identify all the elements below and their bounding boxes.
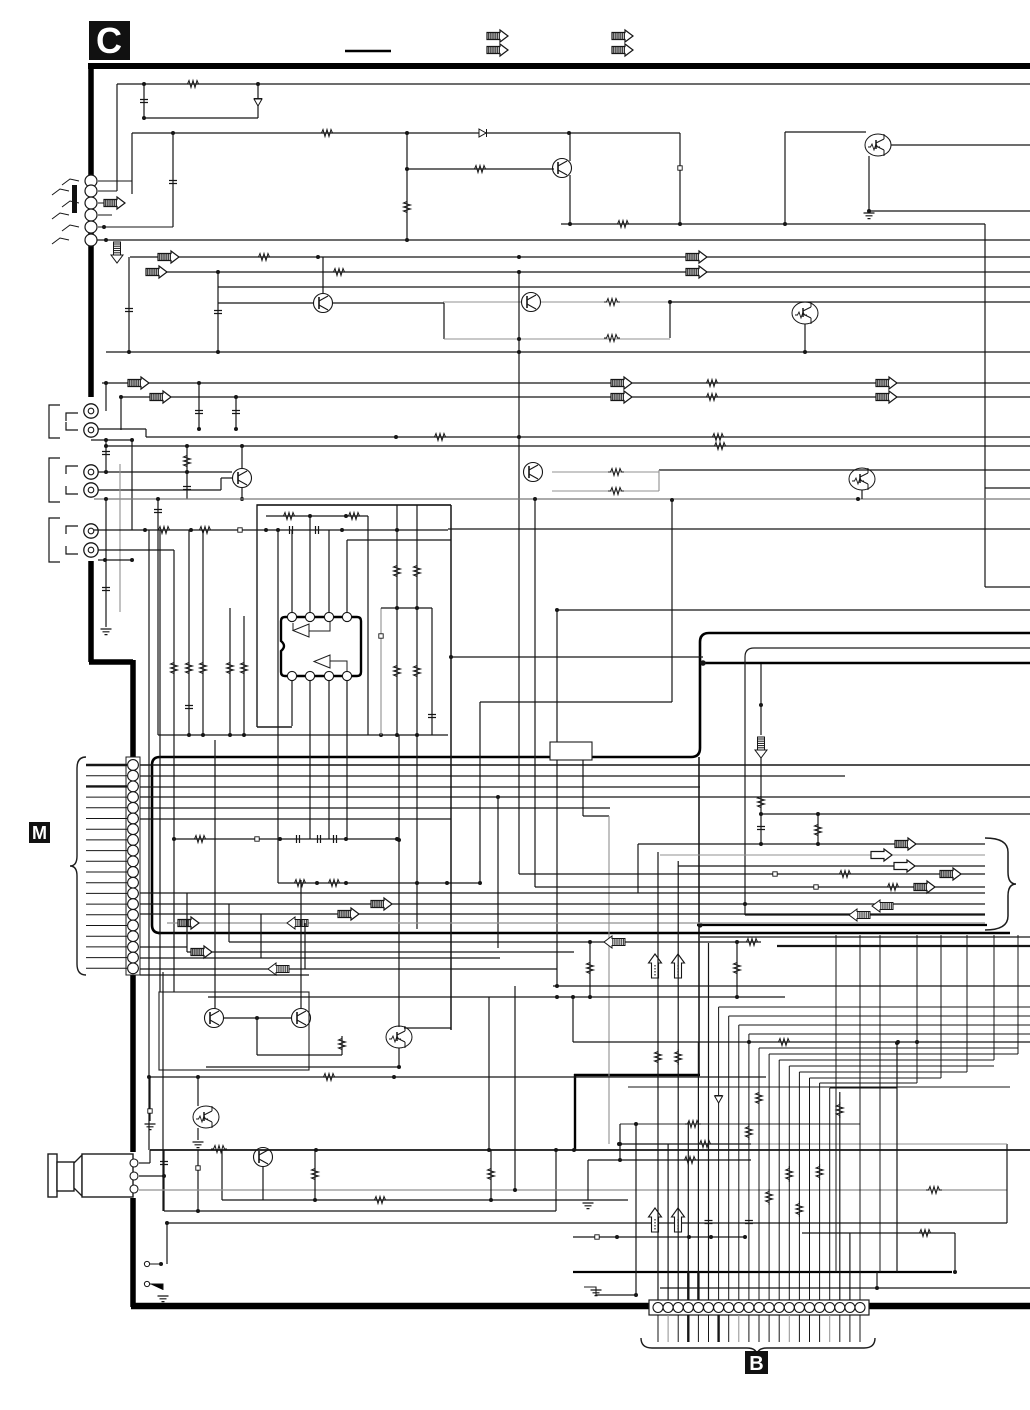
connector M pin 14 lead (86, 903, 127, 905)
wire (587, 1160, 589, 1200)
wire (98, 471, 232, 473)
connector B pin 17 stub (819, 1315, 821, 1342)
bus comb wire (859, 935, 861, 1300)
jack group bracket inner (66, 413, 78, 430)
wire (149, 1077, 151, 1121)
junction (104, 444, 108, 448)
resistor (710, 434, 726, 441)
junction (315, 881, 319, 885)
connector B pin 6 stub (708, 1315, 710, 1342)
junction (555, 995, 559, 999)
wire (208, 996, 785, 998)
junction (572, 1148, 576, 1152)
connector M pin 8 lead (86, 839, 127, 841)
wire (784, 132, 786, 224)
connector M pin 6 (128, 813, 139, 824)
junction (314, 1148, 318, 1152)
junction (449, 655, 453, 659)
wire (119, 464, 121, 612)
resistor (346, 513, 362, 520)
capacitor (140, 100, 148, 103)
wire (687, 1122, 689, 1272)
resistor (256, 254, 272, 261)
bus junction (697, 922, 702, 927)
pad (678, 166, 682, 170)
wire (167, 1222, 1007, 1224)
jack 1 wire (98, 180, 132, 182)
resistor (837, 871, 853, 878)
RCA jack 2 (84, 423, 98, 437)
resistor (655, 1049, 662, 1065)
connector B pin 5 stub (697, 1315, 699, 1342)
wire (985, 487, 1030, 489)
wire (954, 1233, 956, 1272)
capacitor (214, 311, 222, 314)
wire (166, 1223, 168, 1264)
wire (700, 936, 1030, 938)
wire (97, 239, 1030, 241)
zener diode (254, 99, 262, 107)
IC pin top (305, 612, 314, 621)
RCA jack 3 (84, 465, 98, 479)
wire (760, 664, 762, 735)
connector M pin 5 lead (86, 807, 127, 809)
bus comb wire (1017, 935, 1019, 1054)
wire (380, 608, 382, 735)
wire (229, 941, 761, 943)
wire (552, 471, 659, 473)
connector B pin 16 stub (809, 1315, 811, 1342)
signal arrow (940, 868, 961, 880)
wire (407, 168, 554, 170)
wire (760, 758, 762, 844)
jack lead (62, 201, 79, 207)
connector B pin 16 (805, 1303, 815, 1313)
junction (513, 1188, 517, 1192)
bus wire (167, 922, 985, 924)
resistor (394, 663, 401, 679)
connector M pin 14 (128, 899, 139, 910)
resistor (326, 880, 342, 887)
wire (300, 880, 302, 1008)
signal arrow (111, 242, 123, 263)
wire (761, 813, 1030, 815)
wire (188, 530, 190, 735)
resistor (281, 513, 297, 520)
junction (555, 608, 559, 612)
connector B pin 14 riser (788, 1066, 790, 1300)
resistor (682, 1157, 698, 1164)
wire (140, 903, 985, 905)
wire (128, 257, 130, 352)
wire (671, 500, 673, 702)
wire (131, 133, 133, 194)
bus step wire pin 16 (810, 1077, 942, 1079)
wire (106, 351, 1030, 353)
resistor (675, 1049, 682, 1065)
junction (344, 881, 348, 885)
junction (615, 1235, 619, 1239)
wire (658, 470, 660, 491)
capacitor (334, 835, 337, 843)
signal arrow (104, 197, 125, 209)
resistor (796, 1201, 803, 1217)
connector B pin 5 (693, 1303, 703, 1313)
bus step wire pin 12 (769, 1053, 1018, 1055)
junction (264, 528, 268, 532)
connector B pin 21 stub (859, 1315, 861, 1342)
junction (104, 497, 108, 501)
connector B pin 19 (835, 1303, 845, 1313)
resistor (414, 563, 421, 579)
resistor (472, 166, 488, 173)
jack group bracket (49, 405, 60, 438)
junction (395, 733, 399, 737)
connector M pin 10 (128, 856, 139, 867)
motor terminal 2 (130, 1172, 138, 1180)
IC pin bottom (324, 671, 333, 680)
wire (635, 1124, 637, 1295)
op-amp IC body (281, 617, 361, 676)
junction (127, 350, 131, 354)
connector M pin 18 lead (86, 946, 127, 948)
wire (140, 946, 187, 948)
header arrow 2 (487, 44, 508, 56)
resistor (156, 527, 172, 534)
resistor (885, 884, 901, 891)
board border jog (89, 659, 133, 665)
wire (490, 1150, 492, 1200)
resistor (339, 1036, 346, 1052)
junction (670, 498, 674, 502)
signal arrow (895, 838, 916, 850)
connector M pin 1 (128, 760, 139, 771)
connector M pin 12 (128, 877, 139, 888)
wire (162, 972, 164, 1211)
junction (895, 1041, 899, 1045)
connector M pin 4 (128, 792, 139, 803)
junction (185, 444, 189, 448)
wire (534, 499, 536, 887)
resistor (292, 880, 308, 887)
connector M pin 19 (128, 952, 139, 963)
IC pin top (324, 612, 333, 621)
connector B pin 9 riser (738, 1025, 740, 1300)
wire (817, 814, 819, 844)
junction (517, 435, 521, 439)
resistor (786, 1166, 793, 1182)
wire (120, 397, 122, 430)
junction (747, 1040, 751, 1044)
connector B pin 1 (653, 1303, 663, 1313)
connector B pin 16 riser (809, 1078, 811, 1300)
connector M pin 20 (128, 963, 139, 974)
wire (140, 957, 500, 959)
wire (262, 1167, 264, 1200)
header underline (345, 50, 391, 53)
RCA jack 6 (84, 543, 98, 557)
wire (416, 505, 418, 929)
capacitor (705, 1221, 713, 1224)
wire (197, 1128, 199, 1140)
junction (533, 497, 537, 501)
wire (150, 1149, 1030, 1151)
wire (143, 84, 145, 118)
resistor (816, 1164, 823, 1180)
wire (802, 1232, 955, 1234)
bus step wire pin 15 (799, 1071, 967, 1073)
wire (404, 1027, 451, 1029)
transistor (233, 469, 252, 488)
resistor (697, 1141, 713, 1148)
junction (618, 1142, 622, 1146)
wire (406, 134, 408, 240)
motor collar (57, 1162, 74, 1191)
module step vertical (574, 1074, 576, 1150)
wire (241, 446, 243, 468)
wire (552, 490, 659, 492)
wire (341, 1036, 343, 1055)
connector B pin 15 stub (798, 1315, 800, 1342)
jack lead (52, 213, 69, 219)
resistor (241, 660, 248, 676)
junction (162, 1174, 166, 1178)
wire (257, 504, 451, 506)
junction (189, 528, 193, 532)
capacitor (232, 411, 240, 414)
wire (346, 540, 348, 612)
junction (554, 1148, 558, 1152)
wire (541, 301, 670, 303)
wire (94, 529, 448, 531)
connector M pin 18 (128, 942, 139, 953)
junction (156, 497, 160, 501)
wire (291, 681, 293, 726)
svg-text:M: M (32, 823, 47, 843)
resistor (404, 199, 411, 215)
digital transistor (386, 1026, 412, 1048)
IC pin bottom (287, 671, 296, 680)
wire (1006, 1144, 1008, 1223)
connector M pin 20 lead (86, 967, 127, 969)
junction (735, 940, 739, 944)
connector B pin 13 stub (778, 1315, 780, 1342)
wire (637, 844, 639, 893)
test point 2 lead (150, 1284, 163, 1290)
connector B pin 4 (683, 1303, 693, 1313)
wire (105, 499, 107, 627)
wire (660, 854, 985, 856)
wire (257, 84, 259, 118)
signal arrow (876, 377, 897, 389)
signal arrow (604, 936, 625, 948)
connector M pin 3 lead (86, 785, 127, 787)
IC pin top (287, 612, 296, 621)
wire (146, 436, 1030, 438)
jack group bracket (49, 458, 60, 502)
wire (557, 609, 1030, 611)
bus step wire pin 10 (749, 1033, 1030, 1035)
junction (196, 1075, 200, 1079)
connector B pin 17 (815, 1303, 825, 1313)
wire (157, 499, 159, 735)
junction (567, 131, 571, 135)
junction (395, 606, 399, 610)
wire (679, 133, 681, 224)
junction (103, 558, 107, 562)
wire (266, 515, 368, 517)
junction (142, 116, 146, 120)
signal arrow (914, 881, 935, 893)
wire (222, 1199, 628, 1201)
wire (256, 1018, 258, 1055)
wire (217, 272, 219, 352)
pad (773, 872, 777, 876)
wire (304, 923, 306, 969)
svg-text:C: C (96, 20, 122, 61)
signal arrow (338, 908, 359, 920)
bus step wire pin 18 (830, 1087, 897, 1089)
wire (241, 488, 243, 499)
transistor (314, 294, 333, 313)
wire (736, 942, 738, 997)
motor body (82, 1154, 133, 1197)
connector B pin 20 stub (849, 1315, 851, 1342)
junction (487, 1148, 491, 1152)
wire (218, 302, 313, 304)
junction (394, 435, 398, 439)
connector B pin 14 stub (788, 1315, 790, 1342)
connector B pin 12 riser (768, 1054, 770, 1300)
junction (496, 795, 500, 799)
wire (224, 1017, 291, 1019)
resistor (331, 269, 347, 276)
connector M pin 2 lead (86, 775, 127, 777)
connector B pin 18 (825, 1303, 835, 1313)
wire (121, 396, 1030, 398)
connector M pin 2 (128, 770, 139, 781)
connector M body (126, 757, 140, 975)
junction (187, 733, 191, 737)
jack pin 2 (85, 185, 97, 197)
wire (158, 734, 448, 736)
jack group bracket inner (66, 466, 78, 494)
wire (98, 549, 174, 551)
junction (197, 381, 201, 385)
junction (197, 427, 201, 431)
wire (159, 530, 161, 992)
junction (571, 995, 575, 999)
connector B pin 10 stub (748, 1315, 750, 1342)
step wire (584, 1287, 596, 1295)
drive circuit box (159, 992, 309, 1070)
junction (344, 514, 348, 518)
wire (876, 1272, 878, 1288)
wire (697, 1272, 699, 1300)
connector M pin 17 lead (86, 935, 127, 937)
transistor (254, 1148, 273, 1167)
wire (229, 608, 231, 735)
connector B pin 19 stub (839, 1315, 841, 1342)
wire (139, 1175, 164, 1177)
junction (201, 733, 205, 737)
transistor (522, 293, 541, 312)
wire (140, 974, 309, 976)
resistor (394, 563, 401, 579)
junction (240, 497, 244, 501)
junction (379, 733, 383, 737)
wire (804, 324, 806, 352)
wire (198, 383, 200, 429)
bus step wire pin 7 (719, 1006, 1030, 1008)
wire (291, 530, 293, 612)
wire (444, 338, 670, 340)
connector B pin 2 stub (667, 1315, 669, 1342)
bus step wire pin 17 (820, 1082, 917, 1084)
junction (278, 837, 282, 841)
junction (172, 837, 176, 841)
panel label M box (29, 822, 50, 843)
junction (634, 1122, 638, 1126)
wire (328, 681, 330, 839)
board border left upper (88, 63, 94, 397)
resistor (744, 939, 760, 946)
junction (397, 1065, 401, 1069)
junction (171, 131, 175, 135)
junction (405, 167, 409, 171)
wire (146, 271, 1030, 273)
resistor (608, 469, 624, 476)
resistor (432, 434, 448, 441)
connector B pin 17 riser (819, 1083, 821, 1300)
junction (276, 528, 280, 532)
jack pin 6 (85, 234, 97, 246)
signal arrow (672, 954, 685, 978)
wire (106, 445, 1030, 447)
signal arrow (649, 1208, 662, 1232)
header arrow 3 (612, 30, 633, 42)
wire (751, 1143, 1007, 1145)
bus inner line (745, 648, 1030, 915)
junction (517, 337, 521, 341)
junction (405, 131, 409, 135)
connector M pin 4 lead (86, 796, 127, 798)
junction (104, 438, 108, 442)
capacitor (428, 715, 436, 718)
signal arrow (894, 860, 915, 872)
resistor (926, 1187, 942, 1194)
board border top (88, 63, 1030, 69)
capacitor (125, 309, 133, 312)
wire (131, 440, 133, 530)
resistor (758, 794, 765, 810)
connector M pin 19 lead (86, 957, 127, 959)
wire (670, 301, 1030, 303)
bus junction (743, 902, 747, 906)
jack 5 wire (98, 226, 173, 228)
connector M brace (70, 757, 86, 975)
resistor (917, 1230, 933, 1237)
junction (687, 1235, 691, 1239)
junction (159, 1262, 163, 1266)
signal arrow (371, 898, 392, 910)
signal arrow (611, 391, 632, 403)
wire (163, 1150, 165, 1211)
resistor (319, 130, 335, 137)
capacitor (154, 510, 162, 513)
panel label C box (89, 21, 130, 60)
wire (197, 1077, 199, 1106)
